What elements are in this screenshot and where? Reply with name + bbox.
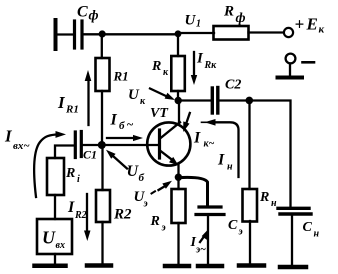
svg-text:C: C [228, 218, 238, 233]
svg-text:I: I [57, 93, 66, 112]
label +Ek [295, 15, 325, 36]
svg-text:б: б [119, 120, 125, 132]
svg-text:I: I [196, 51, 204, 67]
arrow I_R2 [84, 194, 91, 241]
svg-text:ф: ф [89, 9, 99, 24]
arrow U_e [152, 181, 173, 194]
ground (minus terminal) [278, 76, 303, 80]
capacitor C1 [75, 132, 81, 158]
node (Cf junction) [99, 30, 106, 37]
arrow I_e [200, 230, 208, 243]
wire (Re to ground) [177, 223, 179, 264]
wire (input corner to C1) [55, 146, 73, 159]
arrow I_Rk [191, 52, 197, 85]
label I_e [190, 235, 207, 256]
svg-text:к: к [319, 24, 325, 36]
svg-text:C: C [77, 4, 88, 21]
node (collector) [175, 97, 182, 104]
ground (Rn) [239, 263, 264, 268]
svg-text:R2: R2 [74, 210, 87, 221]
svg-text:R: R [223, 4, 234, 20]
svg-text:к: к [140, 96, 146, 107]
wire (collector node to C2) [181, 99, 211, 101]
label Re [150, 214, 166, 234]
arrow I_vx (curved) [34, 131, 66, 197]
label U_k [128, 87, 146, 107]
ground (Re) [165, 264, 189, 269]
svg-text:н: н [227, 162, 233, 173]
label Cn [303, 220, 320, 240]
wire (emitter node to Ce) [181, 177, 208, 205]
wire [54, 254, 56, 264]
capacitor C2 [212, 88, 218, 114]
svg-text:R: R [259, 190, 269, 205]
wire (base node to R2) [101, 145, 103, 190]
ground (R2) [87, 263, 111, 268]
svg-text:~: ~ [127, 117, 134, 131]
resistor Rn [243, 189, 258, 222]
svg-text:C2: C2 [225, 78, 241, 93]
wire (Rk to collector node) [177, 91, 179, 101]
svg-text:C: C [303, 220, 313, 235]
terminal +Ek [284, 28, 293, 37]
arrow I_b [107, 135, 143, 141]
wire (Ce to ground) [207, 216, 209, 265]
capacitor Cf [75, 21, 83, 48]
wire (top rail) [84, 33, 179, 35]
wire (R1 to base node) [101, 91, 103, 145]
label VT [150, 106, 169, 121]
label I_n [217, 152, 233, 173]
wire (U1 node to Rk) [177, 34, 179, 56]
wire (Cn to ground) [291, 216, 293, 266]
label I_R1 [57, 93, 79, 116]
svg-text:н: н [314, 229, 320, 240]
svg-text:э: э [238, 227, 243, 238]
arrow U_b [106, 150, 127, 169]
svg-text:i: i [77, 174, 80, 185]
svg-text:э~: э~ [195, 245, 206, 256]
svg-text:1: 1 [196, 19, 201, 30]
wire (C2 to output node) [220, 99, 250, 101]
wire (base wire) [102, 144, 159, 146]
arrow I_k [183, 113, 190, 132]
label U1 [185, 13, 202, 30]
resistor Rk [171, 56, 185, 91]
svg-text:I: I [193, 130, 201, 147]
label R2 [113, 207, 132, 223]
resistor Ri [47, 158, 64, 195]
node (output) [246, 97, 254, 105]
label C1 [83, 148, 97, 162]
wire (transistor to emitter node) [177, 165, 179, 189]
label Ce [228, 218, 243, 238]
label Ri [65, 166, 80, 185]
ground (left, for C_f) [54, 20, 58, 49]
resistor Re [172, 189, 186, 223]
transistor VT [147, 122, 190, 165]
svg-text:I: I [4, 127, 13, 146]
svg-text:Rк: Rк [204, 60, 218, 71]
svg-text:+: + [295, 15, 305, 34]
label Cf [77, 4, 99, 24]
wire (output node to Rn) [248, 101, 250, 190]
svg-text:н: н [271, 198, 277, 209]
svg-text:U: U [42, 228, 56, 248]
node (base) [98, 141, 106, 149]
wire (C1 to base node) [82, 144, 101, 146]
resistor Rf [214, 26, 249, 40]
label U_e [134, 189, 148, 210]
svg-text:E: E [306, 15, 318, 34]
wire [289, 64, 291, 76]
svg-text:к~: к~ [204, 139, 215, 150]
label Rf [223, 4, 246, 27]
svg-text:э: э [143, 199, 148, 210]
label R1 [113, 69, 129, 84]
svg-text:R2: R2 [113, 207, 132, 223]
label C2 [225, 78, 241, 93]
label I_R2 [67, 199, 87, 221]
arrow I_R1 [85, 70, 92, 125]
node U1 [175, 30, 182, 37]
svg-text:VT: VT [150, 106, 169, 121]
wire [249, 31, 285, 33]
label I_b [110, 112, 134, 133]
svg-text:б: б [139, 172, 145, 184]
node (emitter) [175, 174, 182, 181]
wire (R2 to ground) [101, 222, 103, 264]
svg-text:I: I [67, 199, 75, 216]
svg-text:I: I [217, 152, 225, 169]
source Uvx box [37, 219, 72, 254]
wire (output node to right corner and down to Cn) [249, 101, 291, 207]
wire (collector node to transistor) [178, 101, 180, 125]
svg-text:к: к [163, 67, 169, 78]
svg-text:вх~: вх~ [13, 140, 30, 152]
svg-text:R: R [65, 166, 75, 181]
label U_b [127, 163, 145, 184]
terminal minus [286, 54, 296, 64]
wire (rail to R1) [101, 35, 103, 59]
wire [56, 33, 72, 35]
label I_vx [4, 127, 30, 153]
capacitor Cn [278, 208, 311, 214]
label Uvx [42, 228, 65, 252]
svg-text:вх: вх [56, 240, 65, 251]
label Rn [259, 190, 277, 209]
ground (Uvx) [35, 264, 66, 269]
svg-text:U: U [185, 13, 197, 29]
label minus [303, 61, 315, 64]
svg-text:I: I [110, 112, 118, 129]
svg-text:R1: R1 [113, 69, 129, 84]
wire (Rn to ground) [249, 221, 251, 264]
wire (Ri to Uvx box) [54, 195, 56, 219]
svg-text:R1: R1 [65, 104, 79, 116]
label Rk [151, 59, 169, 78]
svg-text:R: R [151, 59, 161, 74]
svg-text:C1: C1 [83, 148, 97, 162]
svg-text:ф: ф [236, 11, 246, 26]
capacitor Ce [196, 207, 224, 215]
resistor R2 [96, 190, 110, 222]
arrow I_n (curved) [202, 119, 239, 177]
arrow U_k [150, 89, 175, 101]
ground (Cn) [280, 265, 306, 270]
label I_k [193, 130, 215, 150]
resistor R1 [96, 58, 110, 91]
svg-text:э: э [161, 223, 166, 234]
label I_Rk [196, 51, 217, 72]
svg-text:R: R [150, 214, 160, 229]
ground (Ce) [198, 264, 222, 269]
svg-text:U: U [128, 87, 140, 103]
